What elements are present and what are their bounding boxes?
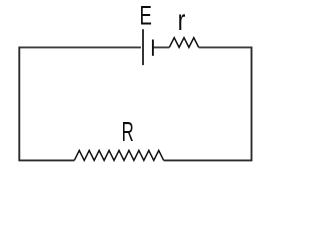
wire battery to resistor r xyxy=(153,46,169,48)
svg-text:E: E xyxy=(140,0,152,30)
wire right side xyxy=(251,47,253,162)
wire bottom-left segment xyxy=(19,159,74,161)
wire bottom-right segment xyxy=(164,159,252,161)
svg-text:r: r xyxy=(178,3,186,36)
resistor R zigzag xyxy=(74,150,163,160)
svg-text:R: R xyxy=(122,116,134,147)
resistor r zigzag xyxy=(169,38,198,48)
wire resistor r to top-right corner xyxy=(199,46,252,48)
wire left side xyxy=(18,47,20,162)
wire top-left segment xyxy=(19,46,141,48)
battery E short plate xyxy=(152,40,154,56)
battery E long plate xyxy=(142,29,144,65)
